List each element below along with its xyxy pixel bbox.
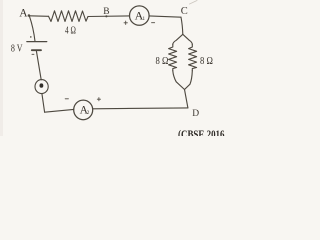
label 8 ohm right xyxy=(200,56,213,67)
wire to corner D xyxy=(185,90,188,108)
wire bottom left segment xyxy=(45,109,74,112)
wire battery to A xyxy=(29,16,35,42)
svg-text:A: A xyxy=(19,7,28,19)
key K contact dot xyxy=(40,83,44,87)
svg-text:C: C xyxy=(181,6,188,17)
polarity plus A2 xyxy=(97,98,100,101)
wire top-left horizontal xyxy=(29,15,48,17)
ammeter A2 xyxy=(74,100,93,120)
junction dot A xyxy=(28,14,31,17)
wire Y-split right leg xyxy=(183,34,193,44)
smudge mark top right xyxy=(190,1,198,5)
wire left riser xyxy=(42,94,45,113)
polarity minus A2 xyxy=(65,98,68,100)
battery cell positive plate xyxy=(27,41,47,43)
svg-text:8 V: 8 V xyxy=(11,42,23,54)
resistor R2 left 8 ohm xyxy=(169,45,177,71)
svg-text:2: 2 xyxy=(87,110,90,116)
svg-text:1: 1 xyxy=(142,16,145,22)
wire key to battery xyxy=(36,51,41,80)
wire Y-split left leg xyxy=(173,34,183,44)
svg-text:D: D xyxy=(192,109,199,119)
battery polarity minus xyxy=(32,53,34,55)
resistor R3 right 8 ohm xyxy=(189,45,197,71)
battery cell negative plate xyxy=(32,49,41,51)
wire C vertical xyxy=(181,17,183,34)
label 8 ohm left xyxy=(156,56,169,67)
resistor R1 xyxy=(49,11,89,22)
label 8V xyxy=(11,42,23,54)
svg-text:4 Ω: 4 Ω xyxy=(65,25,76,36)
wire B to ammeter xyxy=(88,15,130,18)
wire V-join right leg xyxy=(185,71,193,90)
svg-text:8 Ω: 8 Ω xyxy=(156,56,169,67)
wire bottom right segment xyxy=(93,107,188,110)
node A xyxy=(19,7,28,19)
ammeter A1 xyxy=(130,6,150,25)
polarity plus A1 xyxy=(124,21,127,24)
svg-text:(CBSE 2016: (CBSE 2016 xyxy=(178,127,225,136)
label CBSE 2016 xyxy=(178,127,225,141)
label 4 ohm xyxy=(65,25,76,36)
key K circle xyxy=(35,80,48,94)
battery polarity plus dot xyxy=(30,36,32,38)
node D xyxy=(192,109,199,119)
wire ammeter to C xyxy=(149,16,181,17)
node C xyxy=(181,6,188,17)
svg-text:8 Ω: 8 Ω xyxy=(200,56,213,67)
junction dot B xyxy=(105,15,107,17)
polarity minus A1 xyxy=(152,22,155,24)
wire V-join left leg xyxy=(173,71,185,90)
node B xyxy=(103,7,109,17)
